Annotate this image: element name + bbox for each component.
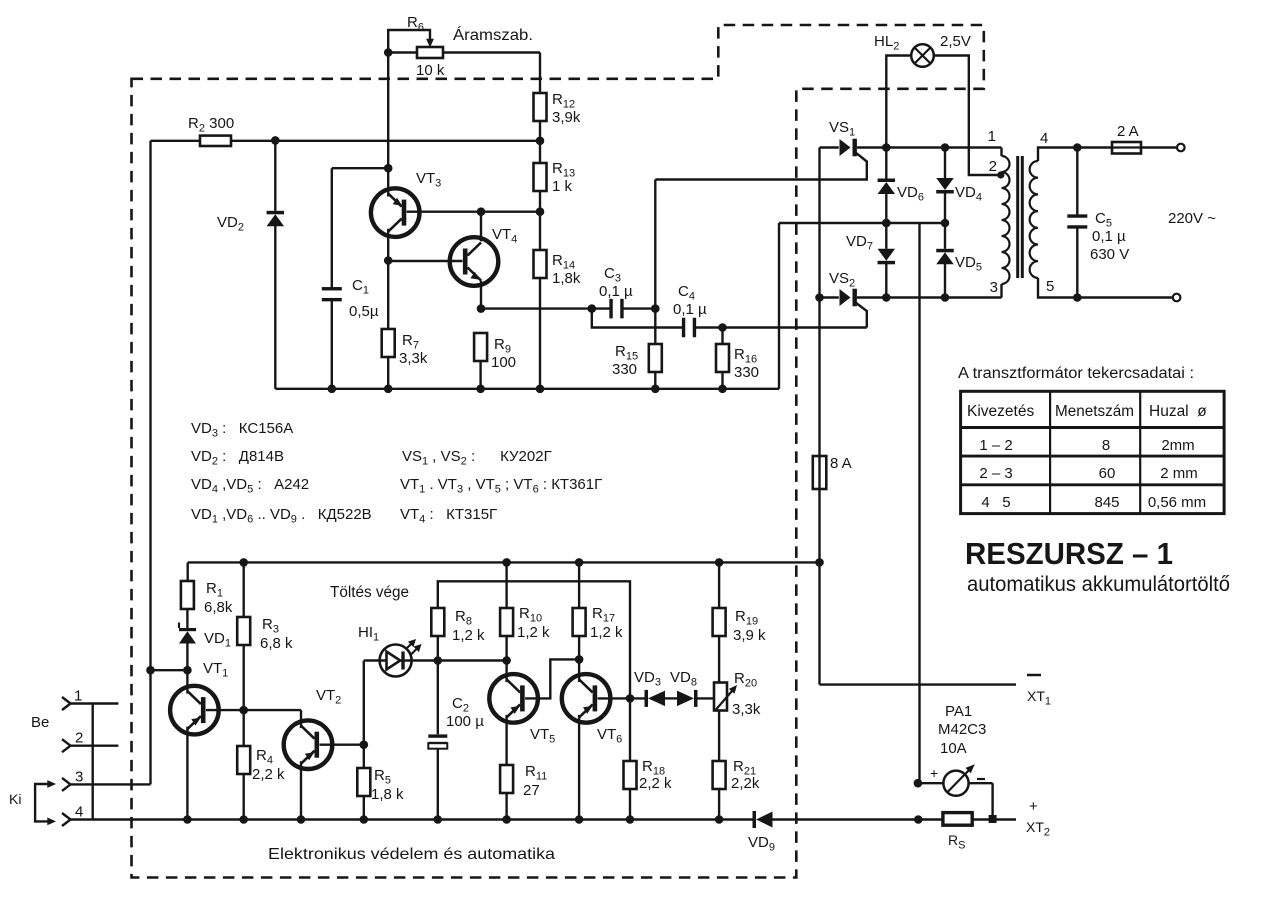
svg-text:4 5: 4 5 (981, 494, 1010, 511)
svg-text:220V ~: 220V ~ (1168, 210, 1216, 227)
svg-text:330: 330 (612, 361, 637, 378)
svg-text:2,2 k: 2,2 k (639, 775, 672, 792)
svg-text:0,1 µ: 0,1 µ (599, 283, 633, 300)
svg-text:2 – 3: 2 – 3 (979, 465, 1012, 482)
svg-text:2 A: 2 A (1117, 123, 1139, 140)
svg-text:1,8 k: 1,8 k (371, 786, 404, 803)
svg-text:1: 1 (74, 688, 82, 705)
svg-text:A transztformátor tekercsadata: A transztformátor tekercsadatai : (958, 365, 1194, 382)
svg-text:Kivezetés: Kivezetés (967, 403, 1034, 420)
svg-text:2 mm: 2 mm (1160, 465, 1198, 482)
svg-text:R2 300: R2 300 (188, 115, 234, 135)
svg-text:10A: 10A (940, 740, 967, 757)
svg-text:VT4 : КТ315Г: VT4 : КТ315Г (400, 506, 497, 526)
svg-text:3: 3 (990, 279, 998, 296)
svg-text:Áramszab.: Áramszab. (453, 27, 533, 44)
svg-text:VD2 : Д814В: VD2 : Д814В (191, 448, 284, 468)
svg-text:VD1 ,VD6 .. VD9 . КД522В: VD1 ,VD6 .. VD9 . КД522В (191, 506, 372, 526)
svg-text:2,5V: 2,5V (940, 33, 971, 50)
svg-text:3: 3 (75, 768, 83, 785)
svg-text:630 V: 630 V (1090, 246, 1129, 263)
svg-text:1,2 k: 1,2 k (590, 624, 623, 641)
svg-text:330: 330 (734, 364, 759, 381)
svg-text:automatikus akkumulátortöltő: automatikus akkumulátortöltő (967, 573, 1230, 596)
svg-text:3,3k: 3,3k (732, 701, 761, 718)
svg-text:+: + (1029, 798, 1038, 815)
svg-text:5: 5 (1046, 278, 1054, 295)
svg-text:1,2 k: 1,2 k (452, 627, 485, 644)
svg-text:0,56 mm: 0,56 mm (1148, 494, 1206, 511)
svg-text:8: 8 (1102, 437, 1110, 454)
svg-text:1 – 2: 1 – 2 (979, 437, 1012, 454)
svg-text:2: 2 (989, 158, 997, 175)
svg-text:1,2 k: 1,2 k (517, 624, 550, 641)
svg-text:Ki: Ki (9, 791, 21, 807)
svg-text:RESZURSZ – 1: RESZURSZ – 1 (965, 536, 1173, 571)
svg-text:+: + (930, 765, 938, 781)
svg-text:2,2 k: 2,2 k (252, 766, 285, 783)
svg-text:100 µ: 100 µ (446, 713, 484, 730)
svg-text:3,9 k: 3,9 k (733, 627, 766, 644)
svg-text:1 k: 1 k (552, 178, 573, 195)
svg-text:3,3k: 3,3k (399, 350, 428, 367)
svg-text:3,9k: 3,9k (552, 109, 581, 126)
svg-text:VT1 . VT3 , VT5 ; VT6 : КТ361: VT1 . VT3 , VT5 ; VT6 : КТ361Г (400, 476, 602, 496)
svg-text:M42С3: M42С3 (938, 721, 986, 738)
svg-text:0,1 µ: 0,1 µ (1092, 228, 1126, 245)
svg-text:PA1: PA1 (945, 703, 972, 720)
svg-text:Elektronikus védelem és aut: Elektronikus védelem és automatika (268, 846, 555, 863)
svg-text:4: 4 (1040, 130, 1048, 147)
svg-text:6,8 k: 6,8 k (260, 635, 293, 652)
svg-text:27: 27 (523, 782, 540, 799)
svg-text:Huzal ø: Huzal ø (1149, 403, 1207, 420)
svg-text:0,1 µ: 0,1 µ (673, 301, 707, 318)
svg-text:845: 845 (1094, 494, 1119, 511)
svg-text:60: 60 (1099, 465, 1116, 482)
svg-text:VD3 : КС156А: VD3 : КС156А (191, 420, 293, 440)
svg-text:6,8k: 6,8k (204, 599, 233, 616)
svg-text:2: 2 (75, 730, 83, 747)
svg-text:Töltés vége: Töltés vége (330, 584, 409, 601)
svg-text:1,8k: 1,8k (552, 270, 581, 287)
svg-text:1: 1 (988, 128, 996, 145)
svg-text:4: 4 (75, 804, 83, 821)
svg-text:100: 100 (491, 354, 516, 371)
svg-text:0,5µ: 0,5µ (349, 303, 379, 320)
svg-text:2,2k: 2,2k (731, 775, 760, 792)
svg-text:Be: Be (31, 714, 49, 731)
svg-text:Menetszám: Menetszám (1055, 403, 1134, 420)
svg-text:10 k: 10 k (416, 62, 445, 79)
svg-text:8 A: 8 A (830, 455, 852, 472)
svg-text:2mm: 2mm (1161, 437, 1194, 454)
